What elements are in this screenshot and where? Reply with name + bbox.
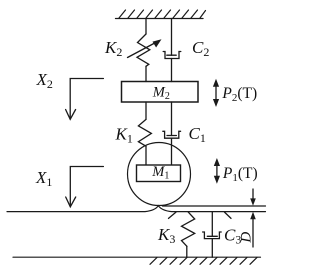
svg-text:P1(T): P1(T)	[222, 165, 258, 184]
svg-text:D: D	[238, 232, 254, 244]
svg-text:P2(T): P2(T)	[221, 85, 257, 104]
